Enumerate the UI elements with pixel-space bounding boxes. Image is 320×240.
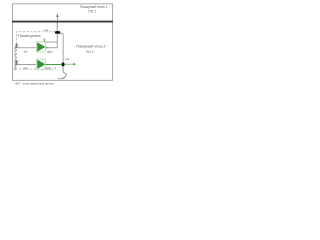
entry ticks detector 2 bbox=[15, 60, 18, 62]
svg-text:ПО 1: ПО 1 bbox=[88, 10, 96, 14]
svg-text:Пожарный отсек 1: Пожарный отсек 1 bbox=[80, 5, 108, 9]
input wire detector 2 bbox=[15, 63, 37, 65]
svg-text:Пожарный отсек 2: Пожарный отсек 2 bbox=[76, 45, 106, 49]
green wire J2 to PO2 arrow bbox=[65, 63, 74, 65]
entry ticks detector 1 bbox=[15, 43, 18, 45]
green wire detector 2 apex to J2 bbox=[45, 64, 62, 66]
svg-text:шс1: шс1 bbox=[44, 29, 49, 32]
input wire detector 1 bbox=[15, 47, 37, 49]
detector ВП1 symbol bbox=[36, 42, 45, 52]
svg-text:ВП - знак адресной метки: ВП - знак адресной метки bbox=[16, 82, 54, 86]
border frame bbox=[13, 4, 113, 81]
svg-text:Помещение: Помещение bbox=[18, 34, 41, 38]
wire J1 right corner down (right loop conductor) bbox=[60, 34, 63, 63]
detector ВП2 symbol bbox=[36, 59, 45, 69]
junction blob J1 bbox=[55, 31, 61, 34]
bus: power line bbox=[12, 21, 113, 23]
wire A to detector 1 top bbox=[45, 41, 58, 43]
dashed room box bbox=[17, 32, 56, 69]
end tick line bbox=[58, 78, 65, 80]
svg-text:ВП2: ВП2 bbox=[46, 66, 52, 70]
dashed room box right stub bbox=[55, 65, 57, 69]
wire bus to junction J1 bbox=[56, 22, 58, 31]
arrow to PO2 bbox=[73, 63, 76, 66]
junction blob J2 bbox=[62, 63, 65, 67]
svg-text:ВП1: ВП1 bbox=[47, 50, 53, 54]
svg-text:ив1: ив1 bbox=[24, 51, 29, 54]
wire below J2 with end curl bbox=[62, 66, 66, 78]
svg-text:ПО 2: ПО 2 bbox=[86, 50, 94, 54]
svg-text:Выключатель: Выключатель bbox=[14, 45, 17, 70]
svg-text:ив2: ив2 bbox=[23, 67, 28, 70]
wire J1 down (left loop conductor) bbox=[56, 34, 58, 49]
svg-text:шс2: шс2 bbox=[65, 58, 70, 61]
green stub above detector 1 bbox=[43, 38, 45, 42]
green riser arrow above bus bbox=[56, 16, 58, 21]
wire B from detector 1 apex bbox=[45, 47, 57, 49]
